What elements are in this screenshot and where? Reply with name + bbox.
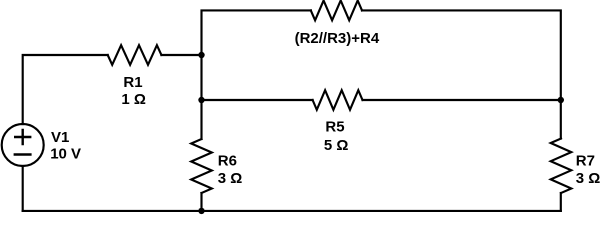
resistor R7 xyxy=(551,139,572,194)
svg-text:V1: V1 xyxy=(51,129,69,146)
wire top branch to right column xyxy=(362,10,561,100)
node C junction dot xyxy=(558,97,564,103)
svg-text:R6: R6 xyxy=(218,153,237,170)
wire node C down to R7 xyxy=(560,100,562,139)
wire R6 to bottom node xyxy=(200,193,202,211)
wire from V1 bottom to bottom rail xyxy=(22,166,24,211)
bottom rail wire xyxy=(23,210,561,212)
wire node B to R5 xyxy=(202,99,313,101)
wire R5 to node C xyxy=(363,99,561,101)
svg-text:(R2//R3)+R4: (R2//R3)+R4 xyxy=(295,30,380,47)
svg-text:3 Ω: 3 Ω xyxy=(576,170,600,187)
resistor R6 xyxy=(191,139,212,193)
svg-text:3 Ω: 3 Ω xyxy=(218,170,243,187)
svg-text:1 Ω: 1 Ω xyxy=(121,91,146,108)
voltage source V1 xyxy=(2,124,44,166)
bottom node junction dot xyxy=(198,208,204,214)
wire node B down to R6 xyxy=(200,100,202,139)
svg-text:10 V: 10 V xyxy=(50,146,81,163)
svg-text:5 Ω: 5 Ω xyxy=(324,137,349,154)
svg-text:R7: R7 xyxy=(576,153,595,170)
node A junction dot xyxy=(198,52,204,58)
resistor R5 xyxy=(313,90,363,110)
svg-text:R1: R1 xyxy=(123,74,142,91)
wire R7 to bottom rail xyxy=(560,193,562,211)
wire R1 to node A xyxy=(161,54,201,56)
wire node A down to node B xyxy=(200,55,202,100)
node B junction dot xyxy=(198,97,204,103)
resistor R1 xyxy=(108,45,162,65)
wire from V1 top to R1 xyxy=(23,55,108,124)
resistor (R2//R3)+R4 xyxy=(311,1,362,21)
svg-text:R5: R5 xyxy=(325,119,344,136)
wire node A up to top branch xyxy=(202,10,311,55)
